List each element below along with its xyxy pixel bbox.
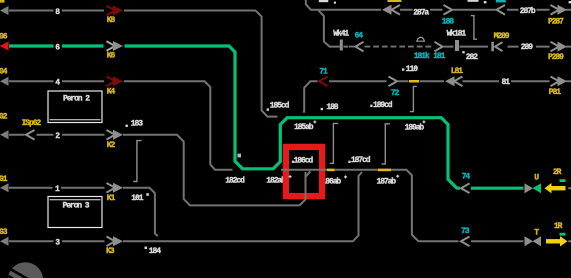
svg-text:184: 184 — [149, 247, 161, 256]
svg-text:1R: 1R — [554, 222, 563, 231]
label 110 with dot — [402, 68, 404, 70]
svg-text:81: 81 — [502, 78, 511, 87]
plus marks for ab labels — [289, 175, 400, 179]
signal K1 arrows — [107, 183, 116, 193]
svg-text:289: 289 — [521, 43, 533, 52]
switch indicator dot — [237, 154, 241, 158]
track 2 middle left chevron — [26, 130, 35, 140]
svg-text:72: 72 — [391, 89, 400, 98]
green dash 1R — [560, 233, 566, 236]
bracket below row A — [410, 86, 417, 111]
row B gray stub labels: 185cd etc — [267, 108, 269, 110]
svg-text:K8: K8 — [107, 16, 116, 25]
svg-text:110: 110 — [406, 65, 418, 74]
label 187cd with dot — [348, 161, 350, 163]
svg-text:186cd: 186cd — [294, 157, 314, 166]
bracket below row B left — [330, 123, 339, 163]
svg-text:183: 183 — [131, 120, 143, 129]
dashes and arrows on shunting row — [349, 46, 431, 48]
dome icon — [417, 37, 425, 41]
svg-text:Wk181: Wk181 — [447, 29, 467, 38]
svg-text:64: 64 — [355, 32, 364, 41]
chevron 181 — [435, 42, 443, 52]
svg-text:287a: 287a — [413, 9, 429, 18]
label 184 with dot — [145, 247, 148, 250]
shunting signal M289 — [491, 42, 494, 52]
signal 72 chevron — [389, 77, 398, 87]
svg-text:P81: P81 — [549, 88, 561, 97]
track 4 left arrow — [0, 77, 9, 86]
label 183 with dot — [126, 125, 128, 127]
chevron left mid — [497, 5, 506, 15]
svg-text:185cd: 185cd — [270, 102, 290, 111]
svg-text:K2: K2 — [107, 141, 116, 150]
track 8 left arrow — [0, 6, 9, 15]
svg-text:Wk41: Wk41 — [333, 30, 349, 39]
svg-text:K4: K4 — [107, 87, 116, 96]
svg-text:188: 188 — [326, 103, 338, 112]
label 186cd with dot — [292, 161, 294, 163]
svg-text:182cd: 182cd — [225, 177, 245, 186]
svg-text:282: 282 — [466, 53, 478, 62]
track 2 line with S connector to row C — [9, 135, 310, 206]
row A (81) with left end down-stub — [303, 81, 571, 112]
svg-text:Peron 3: Peron 3 — [63, 202, 90, 211]
signal K2 arrows — [107, 130, 116, 140]
svg-text:K6: K6 — [107, 51, 116, 60]
svg-text:P287: P287 — [548, 17, 564, 26]
svg-text:M289: M289 — [494, 32, 510, 41]
Wk41 dashed shunting row — [340, 46, 349, 48]
svg-text:189ab: 189ab — [405, 123, 425, 132]
label 189cd with dot — [370, 105, 372, 107]
svg-text:73: 73 — [461, 227, 470, 236]
bracket right of K2 — [133, 141, 141, 182]
row 241 right: chevron 73 — [461, 237, 470, 247]
label 282 with dot — [462, 51, 464, 53]
Peron 2 box — [48, 91, 102, 123]
arrows << on 287a row — [382, 5, 392, 15]
svg-text:L81: L81 — [451, 67, 463, 76]
exit arrows P289 — [551, 42, 560, 52]
track 8 line with connector down to row B — [9, 11, 278, 117]
gray stub right edge — [568, 187, 571, 189]
yellow track segment 186ab — [327, 169, 335, 172]
Peron 3 box — [48, 197, 102, 228]
svg-text:ISp62: ISp62 — [22, 119, 42, 128]
svg-text:188: 188 — [442, 18, 454, 27]
track 6 green route: down, row C, up, row B, down to exit row — [125, 46, 524, 188]
yellow track segment 187ab — [378, 169, 392, 172]
yellow exit arrow (left) — [545, 183, 552, 193]
signal K4 arrows (dark red) — [107, 77, 116, 87]
track 1 line with stub down — [9, 188, 158, 236]
track 6 green line (route set) — [9, 44, 104, 47]
bracket near Wk181 — [471, 16, 477, 40]
svg-text:2R: 2R — [553, 168, 562, 177]
track 1 left arrow — [0, 183, 9, 192]
svg-text:187ab: 187ab — [377, 177, 397, 186]
svg-text:Peron 2: Peron 2 — [63, 95, 90, 104]
svg-text:K1: K1 — [107, 194, 116, 203]
exit arrows P287 — [551, 5, 560, 15]
chevron right mid — [444, 5, 453, 15]
red highlight box around 186cd — [286, 147, 322, 196]
signal K8 arrows (dark red) — [107, 6, 116, 16]
signal 71 chevron (dark red) — [319, 77, 328, 87]
svg-text:187cd: 187cd — [351, 156, 371, 165]
line and Wk181 tick — [444, 46, 489, 48]
svg-text:101: 101 — [131, 194, 143, 203]
bracket below row B right — [382, 124, 391, 164]
signal K3 arrows — [107, 237, 116, 247]
facing triangles at T exit — [525, 236, 534, 246]
svg-text:181: 181 — [433, 52, 445, 61]
svg-text:K3: K3 — [106, 247, 115, 256]
label 188 with dot — [321, 108, 323, 110]
track 4 line with connector down to row C — [9, 81, 233, 170]
svg-text:189cd: 189cd — [373, 101, 393, 110]
svg-text:71: 71 — [319, 67, 328, 76]
row 287a top right — [306, 0, 571, 10]
svg-text:185ab: 185ab — [294, 123, 314, 132]
signal K6 arrows — [107, 41, 116, 51]
insulation tick Wk41 — [340, 40, 343, 51]
track 3 line with connector up to row C — [9, 172, 362, 241]
facing triangles at U exit — [525, 183, 534, 193]
cut labels at top edge — [319, 0, 571, 4]
track 2 left arrow — [0, 130, 9, 139]
sphere logo bottom left — [0, 260, 43, 278]
row C branch down to connector (from track 2) — [305, 172, 307, 199]
track 6 left arrow (red) — [0, 42, 9, 51]
line to 289 — [508, 46, 571, 48]
svg-text:74: 74 — [462, 173, 471, 182]
yellow segment on row A — [409, 80, 419, 83]
branch from 287a row down to Wk41 row — [319, 11, 340, 47]
left edge entry labels — [0, 0, 5, 3]
exit arrows P81 — [551, 77, 560, 87]
svg-text:181k: 181k — [414, 52, 430, 61]
gray stub right edge — [568, 240, 571, 242]
row 188 right: chevron 74 — [461, 183, 470, 193]
yellow exit arrow (right) — [546, 239, 560, 243]
svg-text:P289: P289 — [548, 53, 564, 62]
signal L81 arrows << — [445, 76, 455, 86]
svg-text:287b: 287b — [520, 7, 536, 16]
chevron 64 — [356, 42, 364, 52]
row C gray segments through red box — [281, 170, 524, 242]
track 3 left arrow — [0, 237, 9, 246]
green dash 2R — [560, 179, 566, 182]
